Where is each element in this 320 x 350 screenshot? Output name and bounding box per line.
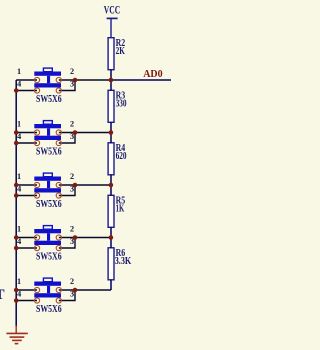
- resistor R5 (1K): [108, 195, 125, 228]
- wire right bus segment: [110, 238, 112, 248]
- wire right bus segment: [110, 227, 112, 237]
- switch S3 pin2 wire: [59, 184, 111, 186]
- svg-text:2K: 2K: [116, 45, 126, 57]
- switch S4 pin4 wire: [16, 247, 37, 249]
- junction right bus row1: [109, 78, 114, 83]
- switch S3 SW5X6 pin1 wire: [16, 184, 37, 186]
- switch S1 pin numbers: [17, 67, 74, 89]
- svg-text:4: 4: [17, 80, 21, 89]
- wire right bus segment: [110, 280, 112, 290]
- switch S1 pin2 wire: [59, 79, 111, 81]
- svg-text:1: 1: [17, 277, 21, 286]
- junction pin3/pin2 S3: [73, 183, 78, 188]
- svg-text:2: 2: [70, 172, 74, 181]
- junction left bus pin1: [14, 130, 19, 135]
- switch S4 pin2 wire: [59, 237, 111, 239]
- junction left bus pin4: [14, 141, 19, 146]
- switch S2 pin circles: [34, 130, 61, 146]
- switch S4 pin3 wire: [59, 238, 75, 249]
- svg-text:SW5X6: SW5X6: [36, 93, 62, 105]
- switch S3 pin circles: [34, 182, 61, 198]
- switch S1 pin4 wire: [16, 90, 37, 92]
- wire right bus segment: [110, 185, 112, 195]
- node AD0 wire: [111, 79, 171, 81]
- svg-text:1: 1: [17, 67, 21, 76]
- junction pin3/pin2 S2: [73, 130, 78, 135]
- ground symbol: [6, 326, 27, 344]
- junction right bus row3: [109, 183, 114, 188]
- resistor R2 (2K): [108, 37, 125, 70]
- junction left bus pin1: [14, 235, 19, 240]
- switch S3 pin3 wire: [59, 185, 75, 196]
- junction right bus row2: [109, 130, 114, 135]
- svg-text:1: 1: [17, 225, 21, 234]
- switch S3 pin4 wire: [16, 195, 37, 197]
- svg-text:330: 330: [116, 98, 127, 110]
- svg-text:1: 1: [17, 172, 21, 181]
- svg-text:SW5X6: SW5X6: [36, 198, 62, 210]
- switch S2 SW5X6 pin1 wire: [16, 132, 37, 134]
- svg-text:SW5X6: SW5X6: [36, 251, 62, 263]
- svg-text:VCC: VCC: [104, 3, 120, 17]
- svg-text:AD0: AD0: [143, 68, 163, 80]
- resistor R6 (3.3K): [108, 247, 132, 280]
- svg-text:2: 2: [70, 277, 74, 286]
- junction left bus pin4: [14, 298, 19, 303]
- junction left bus pin4: [14, 246, 19, 251]
- switch S2 pin4 wire: [16, 142, 37, 144]
- switch S3 body: [34, 173, 61, 192]
- wire right bus segment: [110, 122, 112, 132]
- switch S2 pin2 wire: [59, 132, 111, 134]
- junction left bus pin1: [14, 183, 19, 188]
- junction pin3/pin2 S5: [73, 288, 78, 293]
- svg-text:620: 620: [116, 150, 127, 162]
- svg-text:SW5X6: SW5X6: [36, 303, 62, 315]
- junction left bus pin1: [14, 288, 19, 293]
- switch S1 pin3 wire: [59, 80, 75, 91]
- junction left bus row1 pin4: [14, 88, 19, 93]
- switch S4 body: [34, 226, 61, 245]
- switch S4 pin numbers: [17, 225, 74, 247]
- wire right bus segment: [110, 70, 112, 80]
- switch S5 SW5X6 pin1 wire: [16, 289, 37, 291]
- svg-text:2: 2: [70, 67, 74, 76]
- svg-text:1: 1: [17, 120, 21, 129]
- svg-text:T: T: [0, 287, 5, 303]
- switch S5 pin2 wire: [59, 289, 111, 291]
- switch S1 body: [34, 68, 61, 87]
- junction left bus pin4: [14, 193, 19, 198]
- switch S2 body: [34, 121, 61, 140]
- junction pin3/pin2 S4: [73, 235, 78, 240]
- switch S3 pin numbers: [17, 172, 74, 194]
- switch S1 pin circles: [34, 77, 61, 93]
- switch S4 pin circles: [34, 235, 61, 251]
- svg-text:SW5X6: SW5X6: [36, 146, 62, 158]
- switch S5 pin3 wire: [59, 290, 75, 301]
- svg-text:1K: 1K: [116, 203, 125, 215]
- wire left ground bus: [15, 80, 17, 327]
- wire right bus segment: [110, 133, 112, 143]
- junction pin3/pin2 S1: [73, 78, 78, 83]
- switch S5 body: [34, 278, 61, 297]
- power port VCC: [104, 3, 120, 38]
- switch S4 SW5X6 pin1 wire: [16, 237, 37, 239]
- wire right bus segment: [110, 175, 112, 185]
- wire right bus segment: [110, 80, 112, 90]
- resistor R4 (620): [108, 142, 127, 175]
- svg-text:3.3K: 3.3K: [115, 255, 132, 267]
- switch S5 pin circles: [34, 287, 61, 303]
- switch S2 pin numbers: [17, 120, 74, 142]
- junction right bus row4: [109, 235, 114, 240]
- switch S2 pin3 wire: [59, 133, 75, 144]
- switch S1 SW5X6 pin1 wire: [16, 79, 37, 81]
- switch S5 pin4 wire: [16, 300, 37, 302]
- resistor R3 (330): [108, 90, 127, 123]
- svg-text:2: 2: [70, 120, 74, 129]
- switch S5 pin numbers: [17, 277, 74, 299]
- svg-text:2: 2: [70, 225, 74, 234]
